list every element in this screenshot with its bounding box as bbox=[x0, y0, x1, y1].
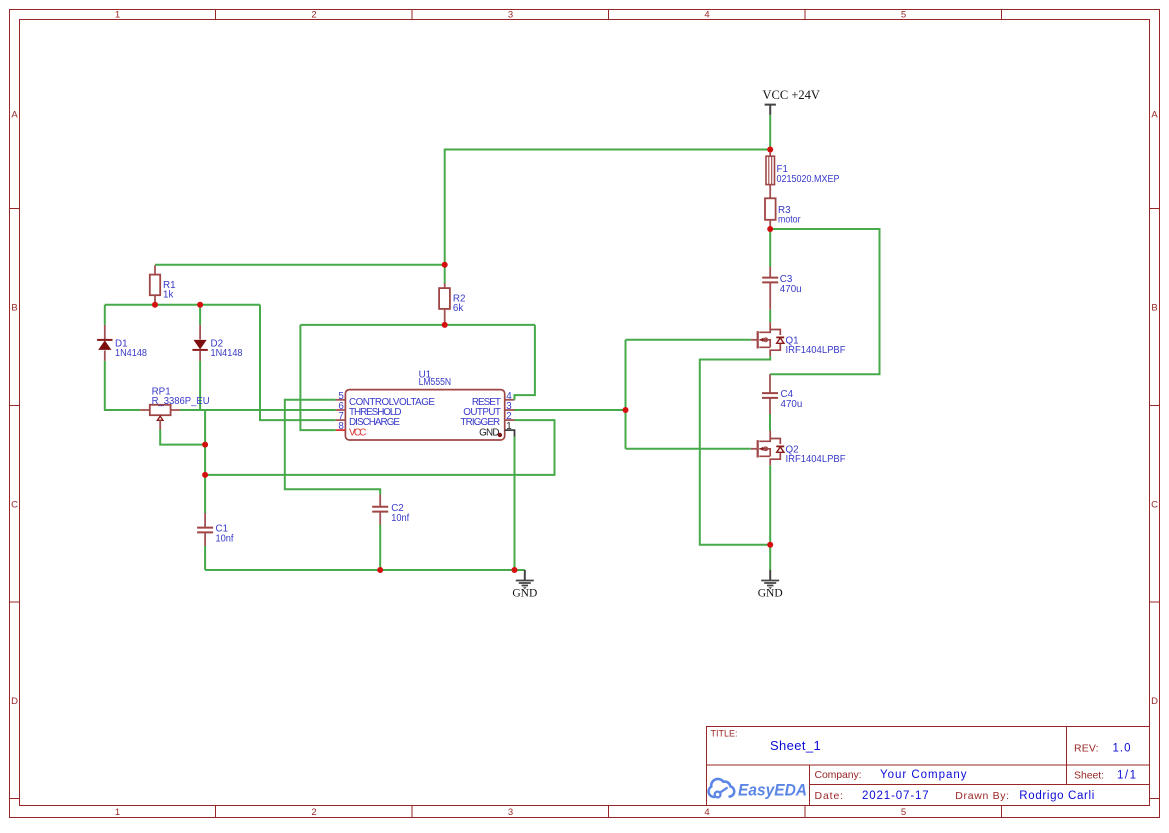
pin labels bbox=[349, 397, 501, 438]
svg-text:4: 4 bbox=[704, 807, 709, 818]
capacitor C4 bbox=[762, 374, 802, 414]
svg-text:3: 3 bbox=[508, 10, 513, 21]
svg-text:B: B bbox=[1151, 303, 1157, 314]
svg-text:1: 1 bbox=[115, 807, 120, 818]
ground GND right bbox=[758, 570, 783, 599]
svg-text:Sheet:: Sheet: bbox=[1074, 770, 1104, 782]
svg-text:IRF1404LPBF: IRF1404LPBF bbox=[786, 454, 846, 465]
svg-text:Your Company: Your Company bbox=[880, 769, 967, 781]
svg-text:GND: GND bbox=[758, 587, 783, 599]
svg-text:1: 1 bbox=[115, 10, 120, 21]
svg-text:1/1: 1/1 bbox=[1117, 770, 1136, 782]
node D2 top junction bbox=[197, 302, 203, 308]
wire VCC stub bbox=[769, 115, 771, 150]
wire Q2 gate bbox=[626, 448, 751, 450]
node Q2 source junction bbox=[767, 542, 773, 548]
wire pin7 DISCHARGE path bbox=[260, 305, 336, 420]
svg-text:TITLE:: TITLE: bbox=[711, 729, 738, 739]
ground GND under U1 bbox=[512, 570, 537, 599]
wire pin5 CONTROLVOLTAGE to C2 bbox=[285, 400, 380, 495]
svg-text:REV:: REV: bbox=[1074, 742, 1099, 754]
wire C2 bottom bbox=[379, 525, 381, 571]
svg-text:Sheet_1: Sheet_1 bbox=[770, 738, 821, 753]
wire C1 column bbox=[204, 445, 206, 513]
svg-text:Company:: Company: bbox=[815, 769, 862, 781]
svg-text:8: 8 bbox=[338, 421, 344, 432]
svg-text:GND: GND bbox=[479, 427, 499, 438]
svg-text:D: D bbox=[1151, 696, 1158, 707]
pin 6 stub bbox=[336, 409, 346, 411]
svg-text:2: 2 bbox=[311, 10, 316, 21]
wire wiper bbox=[160, 430, 205, 445]
svg-text:C: C bbox=[11, 500, 18, 511]
svg-text:D: D bbox=[11, 696, 18, 707]
potentiometer RP1 bbox=[140, 386, 209, 429]
svg-text:3: 3 bbox=[508, 807, 513, 818]
wire right branch from R3 node bbox=[770, 229, 880, 374]
node R2 top junction bbox=[442, 262, 448, 268]
svg-text:EasyEDA: EasyEDA bbox=[738, 780, 807, 799]
wire RP1 right to pin6 THRESHOLD bbox=[180, 409, 336, 411]
pin 8 stub bbox=[336, 429, 346, 431]
node output junction bbox=[623, 407, 629, 413]
net flag VCC +24V bbox=[763, 88, 820, 115]
wire bottom ground rail bbox=[205, 569, 525, 571]
wire D2 bottom bbox=[199, 361, 201, 410]
wire pin8 VCC bbox=[300, 325, 335, 430]
wire Q1 source return bbox=[700, 356, 770, 545]
node wiper junction bbox=[202, 442, 208, 448]
svg-text:A: A bbox=[1151, 110, 1158, 121]
title block texts bbox=[711, 729, 1137, 802]
resistor R2 bbox=[439, 265, 465, 325]
pin 5 stub bbox=[336, 399, 346, 401]
svg-text:C: C bbox=[1151, 500, 1158, 511]
node VCC junction bbox=[767, 147, 773, 153]
wire R1 row bbox=[155, 264, 445, 266]
wire Q1 gate bbox=[626, 339, 751, 341]
op-amp U1 chip body bbox=[345, 369, 504, 440]
wire gate drive vertical bbox=[625, 340, 627, 449]
pin numbers bbox=[338, 391, 512, 432]
svg-text:LM555N: LM555N bbox=[419, 377, 452, 388]
svg-text:10nf: 10nf bbox=[216, 534, 234, 545]
wire TRIGGER path bbox=[205, 420, 554, 475]
svg-text:GND: GND bbox=[512, 587, 537, 599]
svg-text:motor: motor bbox=[778, 215, 801, 226]
node GND junction bbox=[512, 567, 518, 573]
wire threshold down bbox=[204, 410, 206, 445]
wire D1 bottom to RP1 bbox=[105, 361, 141, 410]
pin 7 stub bbox=[336, 419, 346, 421]
wire top rail to R2 column bbox=[445, 150, 771, 265]
svg-text:5: 5 bbox=[901, 10, 906, 21]
pin 2 stub bbox=[505, 419, 515, 421]
wire diode top row bbox=[105, 304, 260, 306]
svg-text:0215020.MXEP: 0215020.MXEP bbox=[777, 174, 840, 185]
wire C1 bottom bbox=[204, 546, 206, 570]
title block frame bbox=[707, 727, 1150, 806]
node R2 bottom junction bbox=[442, 322, 448, 328]
wire OUTPUT to gate column bbox=[515, 409, 626, 411]
svg-text:4: 4 bbox=[704, 10, 709, 21]
pin 3 stub bbox=[505, 409, 515, 411]
wire RESET path bbox=[515, 325, 535, 400]
svg-text:2021-07-17: 2021-07-17 bbox=[862, 790, 929, 802]
svg-text:2: 2 bbox=[311, 807, 316, 818]
svg-text:VCC +24V: VCC +24V bbox=[763, 88, 820, 102]
wire C4 to Q2 drain bbox=[769, 414, 771, 431]
svg-text:IRF1404LPBF: IRF1404LPBF bbox=[786, 345, 846, 356]
svg-text:470u: 470u bbox=[780, 284, 802, 295]
pin 1 stub bbox=[505, 430, 515, 436]
wire R3 node down to C3 bbox=[769, 229, 771, 267]
svg-text:1k: 1k bbox=[163, 290, 173, 301]
wire C3 to Q1 drain bbox=[769, 310, 771, 323]
svg-text:VCC: VCC bbox=[349, 427, 366, 438]
svg-text:Date:: Date: bbox=[815, 790, 844, 802]
wire pin1 GND down bbox=[514, 437, 516, 571]
node trigger junction bbox=[202, 472, 208, 478]
capacitor C1 bbox=[197, 513, 234, 546]
transistor Q1 bbox=[751, 322, 846, 356]
capacitor C2 bbox=[372, 495, 409, 525]
node R1 bottom junction bbox=[152, 302, 158, 308]
svg-text:6k: 6k bbox=[453, 303, 463, 314]
svg-text:B: B bbox=[11, 303, 17, 314]
svg-text:Rodrigo Carli: Rodrigo Carli bbox=[1019, 790, 1094, 802]
pin 1 marker dot bbox=[498, 433, 502, 437]
resistor R1 bbox=[150, 265, 176, 304]
svg-text:1N4148: 1N4148 bbox=[211, 348, 244, 359]
svg-text:5: 5 bbox=[901, 807, 906, 818]
svg-text:470u: 470u bbox=[781, 399, 803, 410]
svg-text:10nf: 10nf bbox=[391, 513, 409, 524]
fuse F1 bbox=[766, 150, 840, 198]
svg-text:Drawn By:: Drawn By: bbox=[955, 790, 1009, 802]
resistor R3 bbox=[765, 198, 801, 229]
svg-text:A: A bbox=[11, 110, 18, 121]
wire VCC rail mid bbox=[300, 324, 535, 326]
EasyEDA logo bbox=[709, 779, 807, 799]
svg-text:R_3386P_EU: R_3386P_EU bbox=[152, 396, 210, 407]
wire D1 column top bbox=[104, 305, 106, 325]
svg-text:1: 1 bbox=[506, 421, 511, 432]
transistor Q2 bbox=[751, 431, 846, 466]
diode D2 bbox=[192, 325, 243, 361]
svg-text:1.0: 1.0 bbox=[1113, 742, 1131, 754]
node C2 ground junction bbox=[377, 567, 383, 573]
pin 4 stub bbox=[505, 399, 515, 401]
svg-text:1N4148: 1N4148 bbox=[115, 348, 148, 359]
wire D2 column top bbox=[199, 305, 201, 325]
node below R3 bbox=[767, 226, 773, 232]
diode D1 bbox=[97, 325, 147, 361]
capacitor C3 bbox=[762, 267, 801, 310]
wire Q2 source to ground bbox=[769, 465, 771, 570]
